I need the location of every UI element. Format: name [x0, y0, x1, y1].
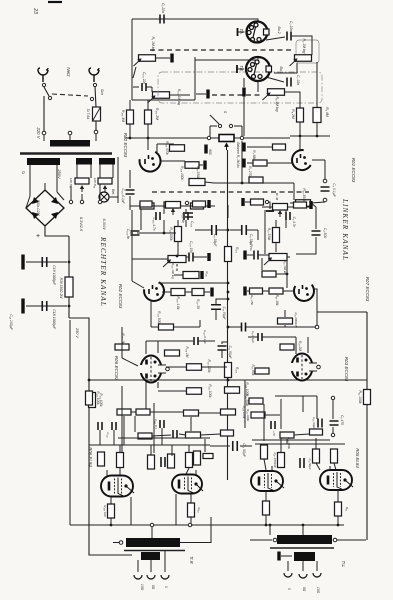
junction gnd B: [190, 524, 193, 527]
wire C110 right: [198, 340, 215, 342]
switch coupling dashed: [52, 94, 88, 96]
svg-text:R₁₅ 10k lin: R₁₅ 10k lin: [283, 260, 287, 274]
junction R106 grid: [147, 137, 150, 140]
speaker terminal left 0: [161, 575, 169, 579]
wire Roe6 anode right: [166, 366, 186, 368]
wire anode feed left: [130, 497, 132, 525]
svg-text:R₁₀₃: R₁₀₃: [235, 367, 239, 374]
wire C102 to R102: [146, 86, 152, 88]
resistor R5 4M: [313, 108, 321, 123]
speaker terminal right 15: [313, 573, 321, 577]
resistor R114: [191, 203, 204, 209]
svg-text:C₁₀₇ 15n: C₁₀₇ 15n: [189, 241, 193, 253]
wire Roe3 top pins2: [307, 337, 309, 353]
wire tone link: [132, 210, 168, 259]
resistor R7 68k: [253, 160, 267, 166]
potentiometer R2 balance: [219, 135, 234, 142]
wire tubeB down: [190, 494, 192, 503]
svg-text:R₁₁₅ 10k log: R₁₁₅ 10k log: [171, 263, 175, 279]
wire TB stub: [194, 57, 196, 100]
wire tone col c2: [185, 220, 187, 227]
wire C107 to bar: [193, 256, 207, 258]
wire Roe6 bottom a: [145, 382, 147, 409]
speaker terminal left 15: [134, 575, 142, 579]
wire balance right down: [241, 141, 243, 183]
terminal input low: [185, 201, 188, 204]
svg-text:0: 0: [287, 588, 291, 590]
wire Roe3 top pins: [295, 337, 297, 354]
wire col x124: [123, 416, 125, 445]
wire TB to C7: [266, 77, 284, 82]
svg-text:R₁₀₅ 4M: R₁₀₅ 4M: [121, 110, 125, 122]
wire tubeB gnd: [190, 517, 192, 525]
wire right to Roe7 grid: [286, 257, 288, 288]
svg-text:R₁ 1M log: R₁ 1M log: [151, 37, 155, 52]
wire mains right upper: [95, 87, 96, 107]
svg-text:R₄ 1M log: R₄ 1M log: [275, 97, 279, 112]
svg-text:R₁₅₀ 100: R₁₅₀ 100: [103, 505, 107, 517]
wire R111 to rail: [202, 366, 227, 368]
wire C9 drop: [257, 230, 259, 240]
svg-text:R₂₃ 100k: R₂₃ 100k: [246, 409, 250, 421]
wire sec right a: [287, 561, 289, 571]
wire col x100: [99, 430, 101, 445]
wire grid bus Roe1: [290, 135, 330, 137]
svg-text:R₁₁ 100k: R₁₁ 100k: [358, 391, 362, 404]
svg-text:Rö2 ECC83: Rö2 ECC83: [123, 133, 128, 158]
wire main bus 380: [89, 379, 367, 381]
wire R106 bottom: [147, 124, 149, 138]
wire heater a term2: [70, 186, 72, 200]
capacitor C2 22n: [287, 32, 291, 41]
wire Roe6 top pins2: [157, 341, 159, 353]
svg-text:5Ω: 5Ω: [151, 585, 155, 590]
wire R10 to C4: [311, 203, 316, 207]
dashed gang line upper: [150, 49, 292, 51]
wire row435 c: [201, 434, 220, 435]
svg-text:TB: TB: [239, 65, 244, 71]
resistor R126b: [221, 409, 236, 415]
heater terminal b1: [98, 200, 101, 203]
wire left channel vertical2: [121, 386, 123, 452]
wire C12 down: [221, 350, 223, 358]
wire R106 top: [147, 100, 149, 110]
svg-text:R₁₀₄ 470k: R₁₀₄ 470k: [165, 141, 169, 155]
svg-text:R₇ 68k: R₇ 68k: [252, 150, 256, 160]
junction bus183: [241, 182, 244, 185]
svg-text:R₁₈ 2M: R₁₈ 2M: [298, 341, 302, 351]
svg-text:C₆ 4.7n: C₆ 4.7n: [292, 217, 296, 228]
wire primary feed right mid: [302, 525, 304, 535]
svg-text:R₈ 270k: R₈ 270k: [248, 166, 252, 178]
junction rail low: [227, 379, 230, 382]
wire C110 stub: [186, 340, 193, 342]
svg-text:TA: TA: [239, 28, 244, 33]
wire R17 bar: [247, 290, 249, 292]
capacitor C114: [173, 430, 177, 438]
svg-text:LINKER KANAL: LINKER KANAL: [341, 198, 349, 261]
svg-text:6.3V/2.5: 6.3V/2.5: [79, 217, 83, 232]
svg-text:250 V: 250 V: [75, 327, 79, 338]
wire tube to R108: [162, 291, 171, 293]
wire col x205: [204, 439, 206, 452]
wire tone mid2: [137, 232, 145, 234]
wire C103 down: [129, 196, 131, 210]
wire C8 left: [195, 229, 212, 231]
resistor cathode left B: [188, 503, 195, 517]
capacitor C110 0.1uF: [194, 337, 198, 345]
junction gnd A: [110, 524, 113, 527]
svg-text:C₁ 22n: C₁ 22n: [161, 3, 165, 13]
svg-text:R₁₀₈ 1.8k: R₁₀₈ 1.8k: [176, 297, 180, 310]
capacitor C7 22n: [287, 78, 291, 87]
resistor R9 2M: [297, 108, 304, 122]
junction bus left: [88, 379, 91, 382]
svg-text:R₁₁₆: R₁₁₆: [205, 271, 209, 277]
wire col x191: [190, 417, 192, 431]
wire fb bus left: [228, 326, 241, 328]
wire sec right c: [316, 561, 318, 571]
wire sec plate: [281, 555, 292, 557]
DIN socket TB: [237, 57, 272, 81]
capacitor C18 1000uF: [42, 301, 47, 311]
resistor R117 39: [192, 289, 204, 296]
potentiometer R4 1M log: [263, 89, 285, 100]
wire Roe6 top pins: [145, 341, 147, 354]
capacitor C113 50uF: [161, 457, 165, 467]
capacitor C6: [286, 212, 290, 220]
svg-text:C₁₇ 50µF: C₁₇ 50µF: [308, 458, 312, 469]
wire tone col c: [185, 209, 187, 214]
wire Roe1 cathode right: [312, 159, 325, 161]
double triode Roe3 ECC83: [290, 354, 320, 381]
ground bar R100: [207, 200, 210, 208]
ground bar row1 R: [242, 143, 245, 152]
svg-text:C₁₆ 33µF: C₁₆ 33µF: [312, 417, 316, 429]
resistor R133 1k: [203, 454, 213, 459]
terminal bus left a: [150, 523, 153, 526]
wire right rail: [366, 312, 368, 540]
wire R19 down: [284, 310, 286, 317]
wire R113 top: [177, 220, 179, 227]
svg-text:R₁₁₉ 1M: R₁₁₉ 1M: [185, 347, 189, 358]
wire R26 top: [263, 444, 265, 445]
dashed gang volume: [276, 193, 278, 201]
wire heater winding b2: [112, 165, 114, 179]
wire R131 bottom: [186, 468, 189, 474]
wire tone col b: [163, 209, 165, 214]
wire Tr.R left: [113, 542, 119, 544]
wire C9 left: [230, 229, 242, 231]
wire EL84 screen row2: [195, 470, 197, 475]
terminal C5 top: [331, 396, 334, 399]
potentiometer R15 10k lin: [264, 254, 287, 266]
wire R6 left: [247, 146, 272, 148]
svg-text:R₁₀₂: R₁₀₂: [235, 247, 239, 254]
ground bar C7b: [243, 251, 246, 260]
resistor R-row4: [251, 199, 264, 205]
wire C16 left: [210, 445, 230, 447]
wire R16 right: [276, 273, 287, 275]
svg-text:0: 0: [164, 586, 168, 588]
wire ground drop x70: [69, 320, 71, 525]
wire primary feed left mid: [151, 525, 153, 538]
wire primary feed right b: [269, 525, 271, 535]
svg-text:Rö2 ECC83: Rö2 ECC83: [118, 284, 123, 309]
svg-text:23: 23: [32, 7, 38, 14]
wire Roe2 anode2: [157, 143, 174, 145]
transformer Tr.R secondary bar: [141, 552, 160, 560]
wire R119 left: [174, 274, 183, 276]
wire heater b term: [99, 184, 101, 200]
wire R105 top: [129, 100, 131, 110]
svg-text:Bel.: Bel.: [111, 189, 115, 195]
capacitor C107 15n: [189, 253, 193, 262]
wire input top: [132, 19, 258, 21]
wire C8 right: [216, 229, 228, 231]
wire R26 bottom: [264, 459, 266, 470]
capacitor C10 +70: [271, 421, 275, 429]
dashed gang balance: [152, 191, 309, 193]
svg-text:Rö5 EL84: Rö5 EL84: [355, 448, 360, 468]
junction bus right b: [269, 524, 272, 527]
svg-text:Rö6 EL84: Rö6 EL84: [88, 447, 93, 467]
wire C16 right: [240, 445, 252, 447]
wire R9 bottom: [299, 122, 301, 136]
pentode EL84 output right A: [251, 471, 284, 491]
wire Tr.L left: [250, 539, 272, 541]
hum pot heater a: [75, 178, 89, 184]
svg-text:R₁₁₇ 39: R₁₁₇ 39: [196, 299, 200, 309]
wire rail to TrL: [337, 539, 366, 541]
wire right row396: [275, 395, 317, 397]
terminal Roe7 out: [315, 325, 319, 329]
svg-text:15Ω: 15Ω: [316, 587, 320, 594]
ground bar row4 R: [241, 198, 244, 206]
junction x287: [286, 273, 289, 276]
wire pot R15 right: [287, 256, 290, 258]
svg-text:C₁₀₀ 4n: C₁₀₀ 4n: [181, 213, 185, 224]
resistor cathode right B: [335, 502, 342, 516]
svg-text:C₁₀₄ 8n: C₁₀₄ 8n: [126, 229, 130, 240]
wire R130 top: [171, 445, 173, 456]
switch S contact b: [229, 124, 232, 127]
resistor R25: [310, 429, 323, 435]
resistor R111: [140, 203, 154, 209]
pilot lamp Bel: [99, 192, 109, 202]
wire right tone row: [262, 206, 312, 208]
wire R4 to rail: [285, 92, 300, 108]
resistor R18 2M: [280, 344, 294, 350]
wire R19 up: [284, 325, 286, 327]
terminal Tr.L right: [333, 538, 337, 542]
wire bridge top: [44, 183, 46, 190]
wire tone mid row: [139, 232, 176, 234]
potentiometer R101 volume: [166, 202, 181, 209]
svg-text:R₁₇ 15k: R₁₇ 15k: [250, 295, 254, 305]
triode Roe1 ECC83 half: [292, 150, 311, 170]
resistor R105 4M: [127, 110, 134, 124]
resistor R17 15k: [250, 288, 263, 294]
terminal balance right: [240, 136, 243, 139]
svg-text:R₁₀₉ 100k: R₁₀₉ 100k: [180, 166, 184, 180]
transformer secondary winding 6.3V/2.5 bar: [76, 158, 92, 165]
wire switch stub left: [210, 125, 217, 127]
wire C7b right: [258, 254, 269, 256]
svg-text:Netz: Netz: [66, 67, 71, 77]
wire grid bus Roe2: [125, 137, 165, 139]
svg-text:C₅ 470: C₅ 470: [340, 415, 344, 425]
wire mains right lower: [95, 121, 97, 131]
wire pot to cap: [186, 256, 189, 258]
wire Roe6 grid feed: [122, 358, 138, 366]
speaker terminal right 5: [299, 574, 307, 578]
wire R5 bottom: [316, 122, 318, 136]
wire Tr.R right end: [180, 517, 211, 543]
resistor R113 330k: [175, 227, 182, 242]
wire R5 vertical: [316, 62, 318, 108]
capacitor C3 0.1uF plates: [321, 187, 330, 191]
resistor R16 1M: [262, 271, 276, 277]
wire Roe2 cathode: [129, 170, 131, 188]
svg-text:C₈ 33µF: C₈ 33µF: [213, 234, 217, 248]
transformer secondary winding HT bar: [27, 158, 60, 165]
wire R30 bottom: [334, 463, 336, 470]
resistor R130b: [221, 430, 234, 436]
wire tubeC gnd: [265, 515, 267, 525]
wire C8 up: [227, 205, 229, 218]
wire Roe6 bottom b: [157, 382, 159, 388]
junction rail C8: [227, 229, 230, 232]
transformer primary terminal mid: [68, 131, 72, 135]
junction cap2: [68, 305, 71, 308]
resistor R128: [117, 453, 124, 468]
wire switch leg left: [209, 126, 211, 138]
wire R128 bottom: [119, 468, 121, 475]
resistor R21b 300k: [249, 398, 263, 404]
wire tubeA gnd: [110, 518, 112, 525]
capacitor C16r 33uF: [318, 419, 322, 428]
triode Roe2b half: [144, 282, 164, 301]
wire tone row: [130, 205, 215, 207]
ground bar grid left: [204, 145, 207, 154]
svg-text:R₁₁₂ 100k: R₁₁₂ 100k: [208, 384, 212, 398]
svg-text:+70: +70: [272, 430, 276, 435]
resistor R103 on rail: [225, 363, 232, 378]
wire pot R1 right: [156, 57, 170, 59]
svg-text:C19 1000µF: C19 1000µF: [52, 265, 56, 286]
wire heater winding b1: [99, 165, 101, 179]
wire switch leg right: [241, 126, 243, 138]
capacitor C13 50uF: [211, 305, 221, 310]
resistor R132: [194, 451, 201, 465]
resistor R129b: [186, 432, 201, 438]
svg-text:15Ω: 15Ω: [140, 584, 144, 591]
svg-text:R₁₁₁ 330k: R₁₁₁ 330k: [207, 359, 211, 373]
svg-text:Rö3 ECC83: Rö3 ECC83: [344, 357, 349, 382]
wire switch stub right: [234, 125, 242, 127]
ground bar row2 R: [242, 159, 245, 168]
wire R113 bottom: [177, 242, 179, 255]
balance group outline: [296, 40, 319, 63]
wire R28 bottom: [316, 463, 320, 470]
wire EL84 right screen: [271, 466, 273, 471]
wire cap1: [26, 261, 67, 263]
capacitor C8r 0.1uF: [258, 333, 262, 341]
bridge rectifier B30s-C250: [26, 190, 64, 226]
potentiometer R3 1M log: [290, 55, 312, 66]
svg-text:C₁₀₅ 4.7n: C₁₀₅ 4.7n: [152, 217, 156, 230]
ground bar R109: [203, 161, 206, 170]
wire sec right b: [302, 561, 304, 571]
capacitor C9 33uF: [242, 225, 247, 235]
svg-text:Balance R₂ 1M lin: Balance R₂ 1M lin: [236, 142, 240, 168]
capacitor C112b: [112, 422, 116, 430]
resistor R112: [164, 202, 178, 208]
potentiometer R12 volume: [273, 204, 288, 211]
ground bar C107: [207, 253, 210, 261]
svg-text:C₁₀₂ 22n: C₁₀₂ 22n: [142, 72, 146, 84]
svg-text:R₁₀ 350k: R₁₀ 350k: [302, 188, 306, 202]
svg-text:+: +: [36, 233, 40, 240]
svg-text:Rö7 ECC83: Rö7 ECC83: [365, 277, 370, 302]
wire row412 b: [150, 411, 184, 413]
wire TB bottom pin: [257, 82, 259, 92]
wire C3 to R10: [311, 202, 325, 203]
wire grid into Roe1: [299, 136, 301, 150]
wire R96 tube: [283, 290, 294, 292]
wire primary left stub: [43, 135, 45, 141]
capacitor C111 0.1: [160, 420, 164, 428]
svg-text:C₁₁₂: C₁₁₂: [106, 432, 110, 438]
svg-text:C₁₀₃ 0.1µF: C₁₀₃ 0.1µF: [121, 188, 125, 204]
wire right col 264: [263, 404, 265, 441]
wire tone col b2: [163, 220, 165, 233]
junction bus rail: [227, 379, 230, 382]
wire bus183 drop: [293, 183, 295, 200]
wire input left vertical: [131, 19, 133, 100]
resistor R8 270k: [249, 177, 263, 183]
svg-text:Sch: Sch: [100, 89, 104, 95]
capacitor C4 500: [312, 231, 321, 235]
svg-text:C₁₁₁ 0.1: C₁₁₁ 0.1: [154, 419, 158, 429]
junction pot R115: [176, 255, 179, 258]
resistor cathode left A: [108, 504, 115, 518]
wire right row 435: [294, 434, 309, 435]
ground bar R119: [200, 271, 203, 279]
resistor R125b: [184, 410, 199, 416]
switch S contact a: [218, 124, 221, 127]
wire mains left: [43, 96, 45, 131]
capacitor C100 4n: [185, 213, 193, 217]
wire tubeD gnd: [337, 516, 339, 525]
wire row4 a: [245, 201, 250, 203]
svg-text:C₂ 22n: C₂ 22n: [289, 21, 293, 31]
wire R28 top: [315, 438, 317, 449]
wire right tone col a: [285, 210, 287, 214]
potentiometer R1 1M log: [134, 55, 156, 66]
svg-text:R₁₉ 200Ω/W: R₁₉ 200Ω/W: [294, 313, 298, 328]
transformer primary terminal left: [42, 131, 46, 135]
svg-text:C₃ 0.1µF: C₃ 0.1µF: [332, 183, 336, 197]
junction gnd C: [265, 524, 268, 527]
wire left channel vertical: [121, 327, 123, 358]
svg-text:680: 680: [208, 149, 212, 155]
wire anode feed left2: [175, 494, 177, 525]
wire feedback bus: [246, 326, 315, 328]
wire C110 left: [178, 340, 186, 342]
resistor R124b: [136, 409, 150, 415]
